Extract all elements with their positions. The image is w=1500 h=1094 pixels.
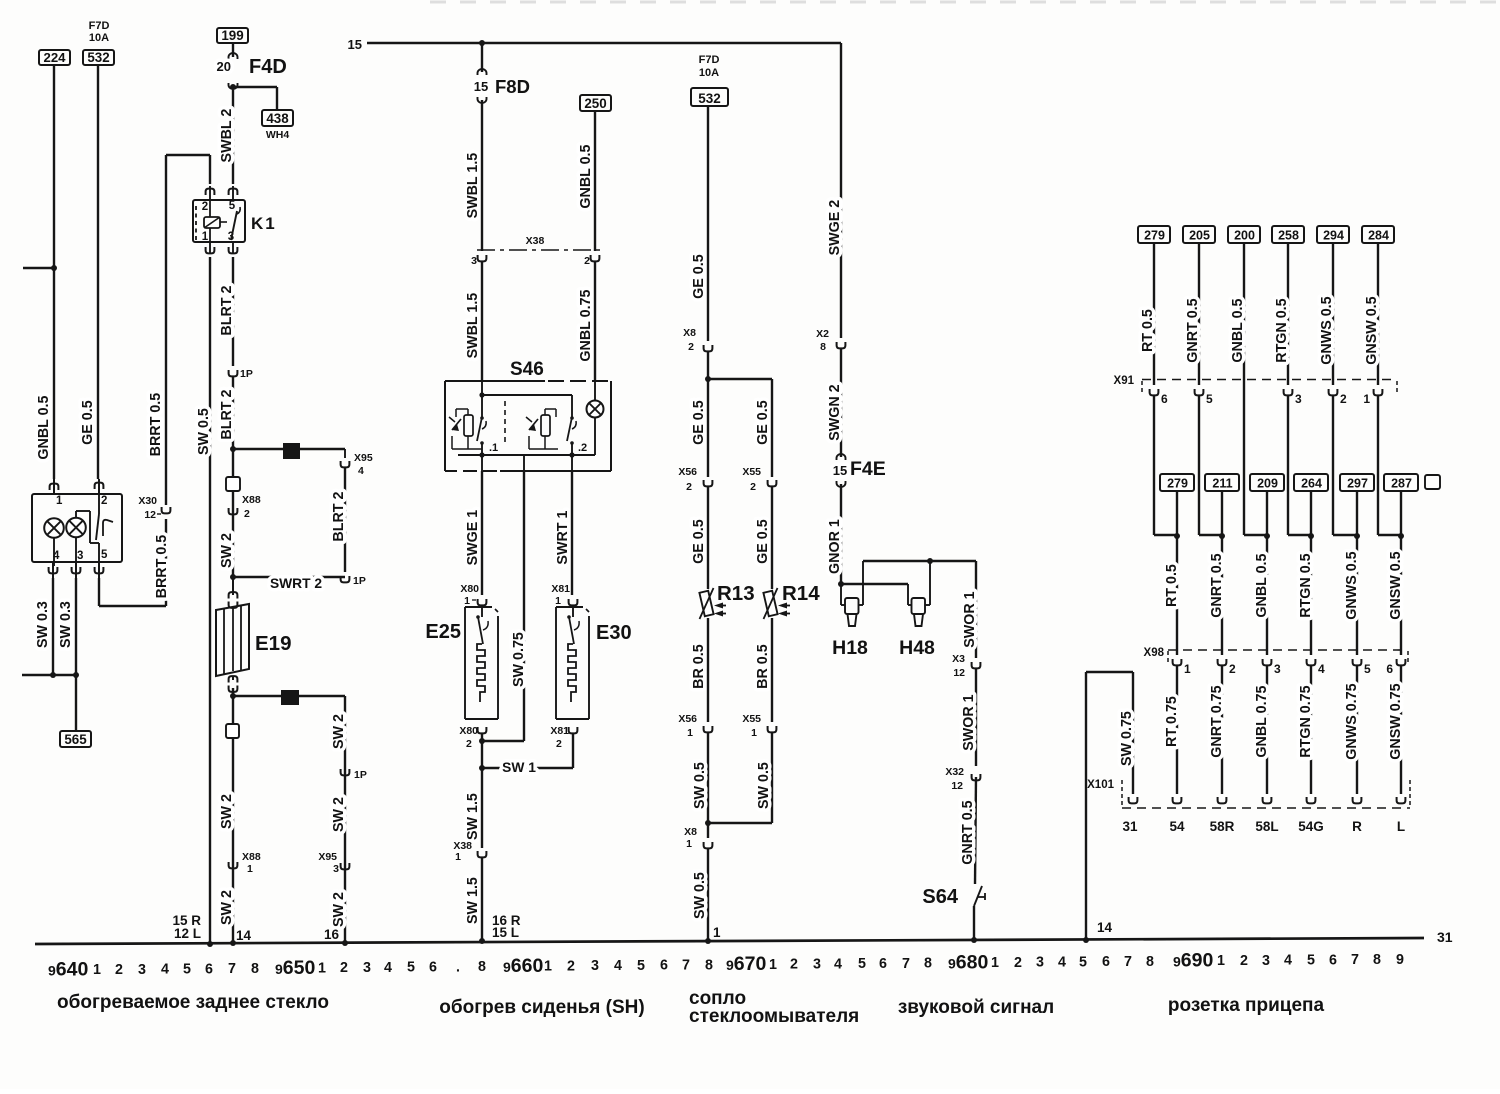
wire SWRT 2 from junction to 1P (233, 576, 345, 578)
svg-text:12: 12 (951, 780, 963, 792)
svg-text:X32: X32 (945, 766, 964, 778)
svg-text:5: 5 (229, 200, 236, 212)
box lead (1176, 491, 1178, 535)
terminal box 199 (217, 28, 248, 43)
svg-text:31: 31 (1437, 929, 1453, 945)
svg-text:GE 0.5: GE 0.5 (755, 519, 771, 564)
svg-text:8: 8 (1373, 952, 1381, 968)
wire SW 1.5 to rail (481, 858, 483, 941)
svg-text:15: 15 (474, 79, 488, 94)
terminal box 279 (second row) (1160, 474, 1194, 491)
svg-text:5: 5 (1307, 953, 1315, 969)
svg-text:31: 31 (1122, 819, 1138, 834)
wire from X91 column to junction 279 (1153, 396, 1155, 535)
svg-text:2: 2 (101, 495, 107, 507)
open connector square (226, 724, 239, 738)
svg-text:1: 1 (56, 495, 63, 507)
svg-text:1: 1 (687, 727, 693, 739)
connector X38 pin 1 (478, 851, 487, 857)
svg-text:BLRT 2: BLRT 2 (219, 286, 235, 336)
wire SW 0.75 from rail 31 to X101 (1085, 672, 1087, 940)
svg-text:S64: S64 (922, 886, 958, 908)
svg-text:GE 0.5: GE 0.5 (691, 400, 707, 445)
svg-text:532: 532 (87, 50, 109, 65)
svg-text:обогрев сиденья (SH): обогрев сиденья (SH) (439, 997, 644, 1018)
connector X95 pin 4 (341, 461, 350, 467)
svg-text:R13: R13 (717, 582, 755, 605)
horn bus lower wire (841, 583, 908, 585)
connector X56 pin 1 (704, 726, 713, 732)
svg-text:GNRT 0.5: GNRT 0.5 (1209, 553, 1225, 617)
svg-text:3: 3 (138, 962, 146, 978)
svg-text:1: 1 (686, 838, 692, 850)
terminal box 258 (1272, 226, 1304, 243)
svg-text:297: 297 (1347, 477, 1368, 491)
svg-text:2: 2 (688, 341, 694, 353)
junction (51, 265, 57, 271)
svg-text:3: 3 (363, 960, 371, 976)
svg-text:8: 8 (924, 956, 932, 972)
junction branch to R14 (707, 352, 709, 379)
fuse F8D terminal 15 (481, 43, 483, 72)
svg-text:2: 2 (1014, 955, 1022, 971)
svg-text:SWGE 1: SWGE 1 (465, 510, 481, 566)
junction (1398, 533, 1404, 539)
svg-text:4: 4 (358, 465, 364, 477)
svg-text:GE 0.5: GE 0.5 (691, 519, 707, 564)
relay K1 (193, 186, 277, 253)
svg-text:5: 5 (101, 549, 108, 561)
svg-text:R: R (1352, 819, 1362, 834)
terminal box 224 (39, 50, 70, 65)
svg-text:BLRT 2: BLRT 2 (219, 390, 235, 440)
junction on rail (230, 940, 236, 946)
svg-text:X30: X30 (138, 495, 157, 507)
svg-text:3: 3 (333, 863, 339, 875)
wire BLRT 2 from X95-4 to 1P (344, 468, 346, 572)
svg-text:5: 5 (1206, 392, 1213, 406)
junction below E19 (230, 693, 236, 699)
wire GE 0.5 to X56-2 (707, 379, 709, 477)
svg-text:F4E: F4E (850, 458, 886, 480)
wire GNWS 0.75 from X98 to X101 (1356, 666, 1358, 794)
connector X101 pin L (1397, 797, 1406, 803)
svg-text:16: 16 (324, 927, 340, 942)
svg-text:14: 14 (1097, 920, 1113, 935)
connector X80 pin 1 (478, 599, 487, 605)
svg-text:звуковой сигнал: звуковой сигнал (898, 997, 1054, 1018)
horn bus upper wire (863, 560, 976, 562)
svg-text:SW 0.3: SW 0.3 (35, 601, 51, 648)
svg-text:GE 0.5: GE 0.5 (80, 400, 96, 445)
wire SWOR 1 from X3 to X32 (975, 669, 977, 766)
svg-text:F4D: F4D (249, 56, 287, 78)
svg-text:2: 2 (340, 960, 348, 976)
svg-text:GNBL 0.75: GNBL 0.75 (578, 290, 594, 362)
wire GE 0.5 to R13 (707, 487, 709, 589)
svg-text:15 L: 15 L (492, 925, 519, 940)
wire RTGN 0.75 from X98 to X101 (1310, 666, 1312, 794)
svg-text:GNBL 0.5: GNBL 0.5 (36, 395, 52, 459)
wire from 199 to fuse F4D (232, 43, 234, 57)
svg-text:RT 0.5: RT 0.5 (1164, 564, 1180, 607)
svg-text:58R: 58R (1210, 819, 1235, 834)
connector X98 pin 6 (1397, 659, 1406, 665)
svg-text:9650: 9650 (275, 957, 315, 979)
wire GNBL 0.5 to X98 pin 3 (1266, 535, 1268, 655)
svg-text:1: 1 (991, 955, 999, 971)
svg-text:RT 0.5: RT 0.5 (1140, 309, 1156, 352)
junction on rail (971, 937, 977, 943)
terminal box 532 (washer) (691, 88, 728, 106)
svg-text:SWBL 1.5: SWBL 1.5 (465, 153, 481, 219)
junction (1219, 533, 1225, 539)
svg-text:8: 8 (1146, 954, 1154, 970)
connector X2 pin 8 (837, 342, 846, 348)
connector X8 pin 1 (707, 823, 709, 838)
svg-text:E25: E25 (425, 621, 461, 643)
branch wire with splice to X95-3 column (233, 695, 345, 697)
connector X101 pin 54G (1307, 797, 1316, 803)
svg-text:3: 3 (591, 958, 599, 974)
svg-text:F7D: F7D (699, 54, 720, 66)
svg-text:1: 1 (464, 595, 470, 607)
junction on rail (479, 938, 485, 944)
wire from X91 column to junction 264 (1287, 396, 1289, 535)
svg-text:SW 1.5: SW 1.5 (465, 793, 481, 840)
terminal box 438 (262, 110, 293, 126)
terminal box 264 (second row) (1294, 474, 1328, 491)
svg-text:BRRT 0.5: BRRT 0.5 (148, 393, 164, 457)
wire SWRT 1 from S46.2 to X81-1 (571, 471, 573, 595)
open connector square on SW2 wire (226, 477, 240, 491)
junction on rail (207, 941, 213, 947)
svg-text:X81: X81 (551, 583, 570, 595)
svg-text:GNWS 0.75: GNWS 0.75 (1344, 683, 1360, 759)
svg-text:287: 287 (1391, 477, 1412, 491)
svg-text:1: 1 (1217, 953, 1225, 969)
svg-text:2: 2 (584, 255, 590, 267)
svg-text:8: 8 (251, 961, 259, 977)
washer nozzle heater R14 (763, 582, 820, 619)
wire GNBL 0.5 from 224 to lamp M pin1 (53, 65, 55, 479)
svg-text:SW 2: SW 2 (331, 714, 347, 749)
svg-text:розетка прицепа: розетка прицепа (1168, 995, 1325, 1016)
junction (230, 574, 236, 580)
heated rear window element E19 (216, 578, 291, 692)
svg-text:6: 6 (660, 958, 668, 974)
svg-text:1: 1 (555, 595, 561, 607)
wire from S64 to rail (973, 906, 975, 940)
svg-text:10A: 10A (699, 67, 719, 79)
wire BRRT 0.5 from X30 to relay K1 pin 2 (165, 155, 167, 505)
svg-text:2: 2 (1340, 392, 1347, 406)
svg-text:9640: 9640 (48, 959, 88, 981)
svg-text:X3: X3 (952, 653, 965, 665)
svg-text:7: 7 (1351, 952, 1359, 968)
svg-text:GNBL 0.75: GNBL 0.75 (1254, 686, 1270, 758)
svg-text:SW 0.5: SW 0.5 (196, 408, 212, 455)
svg-text:4: 4 (1284, 953, 1292, 969)
svg-text:200: 200 (1234, 229, 1255, 243)
svg-text:2: 2 (202, 201, 208, 213)
wire BRRT 0.5 from M pin5 to connector X30 (98, 578, 100, 606)
svg-text:10A: 10A (89, 32, 109, 44)
svg-text:4: 4 (161, 962, 169, 978)
svg-text:GNRT 0.75: GNRT 0.75 (1209, 685, 1225, 757)
svg-text:258: 258 (1278, 229, 1299, 243)
node 31 ground rail (35, 938, 1424, 944)
svg-text:9680: 9680 (948, 951, 988, 973)
svg-text:3: 3 (1036, 955, 1044, 971)
wire GNSW 0.5 to X98 pin 6 (1400, 535, 1402, 655)
connector X80 pin 2 (478, 727, 487, 733)
svg-text:9690: 9690 (1173, 950, 1213, 972)
svg-text:1P: 1P (240, 368, 253, 380)
svg-text:1: 1 (544, 959, 552, 975)
connector X91 pin 5 (1195, 389, 1204, 395)
svg-text:E19: E19 (255, 632, 291, 655)
svg-text:SW 1: SW 1 (502, 760, 536, 775)
svg-text:6: 6 (1329, 952, 1337, 968)
svg-text:1P: 1P (353, 575, 366, 587)
horn switch S64 (922, 886, 985, 908)
svg-text:1: 1 (713, 925, 721, 940)
svg-text:GNBL 0.5: GNBL 0.5 (1254, 553, 1270, 617)
wire RTGN 0.5 to X98 pin 4 (1310, 535, 1312, 655)
connector X38 pins 3 and 2 (471, 235, 601, 267)
svg-text:SWBL 2: SWBL 2 (219, 109, 235, 163)
svg-text:стеклоомывателя: стеклоомывателя (689, 1006, 859, 1027)
svg-text:GNWS 0.5: GNWS 0.5 (1344, 551, 1360, 619)
wire BLRT 2 from 1P to junction (232, 377, 234, 578)
wire RT 0.75 from X98 to X101 (1176, 666, 1178, 794)
svg-text:X101: X101 (1087, 779, 1114, 791)
svg-text:SW 0.5: SW 0.5 (692, 872, 708, 919)
svg-text:X2: X2 (816, 328, 829, 340)
svg-text:2: 2 (790, 957, 798, 973)
seat heater switch S46 (445, 359, 611, 471)
wire below E19 (232, 688, 234, 944)
svg-text:.2: .2 (578, 442, 587, 454)
connector 1P (229, 370, 238, 376)
wire GNOR 1 from F4E to horns (840, 484, 842, 584)
connector X32 pin 12 (972, 774, 981, 780)
svg-text:2: 2 (244, 508, 250, 520)
connector X81 pin 1 (569, 599, 578, 605)
svg-text:5: 5 (858, 956, 866, 972)
wire SW 0.3 from M pin4 (52, 578, 54, 675)
junction on rail (1083, 937, 1089, 943)
fuse F4D terminal 20 (229, 53, 238, 59)
ground terminal box 565 (60, 731, 91, 747)
washer nozzle heater R13 (699, 582, 754, 619)
svg-text:GNOR 1: GNOR 1 (827, 519, 843, 574)
svg-text:X88: X88 (242, 494, 261, 506)
svg-text:2: 2 (115, 962, 123, 978)
svg-text:3: 3 (813, 956, 821, 972)
svg-text:6: 6 (1161, 392, 1168, 406)
svg-text:BLRT 2: BLRT 2 (331, 492, 347, 542)
connector X88 pin 1 (229, 862, 238, 868)
terminal box 250 (580, 95, 611, 111)
svg-text:X55: X55 (742, 466, 761, 478)
svg-text:.: . (456, 959, 460, 975)
svg-text:X80: X80 (459, 725, 478, 737)
junction (1308, 533, 1314, 539)
box lead (1400, 491, 1402, 535)
svg-text:565: 565 (64, 732, 87, 747)
svg-text:SWOR 1: SWOR 1 (962, 591, 978, 647)
junction with SW 0.75 return (481, 733, 483, 768)
connector X95 pin 3 (341, 863, 350, 869)
svg-text:5: 5 (637, 958, 645, 974)
svg-text:6: 6 (429, 960, 437, 976)
horn H18 (832, 561, 868, 659)
svg-text:SW 0.5: SW 0.5 (692, 762, 708, 809)
svg-text:1: 1 (202, 231, 209, 243)
box lead (1310, 491, 1312, 535)
svg-text:2: 2 (750, 481, 756, 493)
svg-text:X8: X8 (684, 826, 697, 838)
svg-text:GNRT 0.5: GNRT 0.5 (960, 800, 976, 864)
wire GNRT 0.75 from X98 to X101 (1221, 666, 1223, 794)
svg-text:SW 0.3: SW 0.3 (58, 601, 74, 648)
svg-text:9660: 9660 (503, 955, 543, 977)
svg-text:SW 2: SW 2 (219, 794, 235, 829)
svg-text:1: 1 (247, 863, 253, 875)
junction to 438 (230, 84, 236, 90)
connector X98 (1144, 647, 1408, 663)
svg-text:RT 0.75: RT 0.75 (1164, 696, 1180, 747)
connector X8 pin 2 (704, 345, 713, 351)
connector X98 pin 3 (1263, 659, 1272, 665)
svg-text:15: 15 (833, 463, 847, 478)
interior lamp unit M with switch (32, 479, 122, 578)
connector X101 pin 54 (1173, 797, 1182, 803)
svg-text:обогреваемое заднее стекло: обогреваемое заднее стекло (57, 992, 329, 1013)
terminal box 279 (1138, 226, 1170, 243)
svg-text:7: 7 (228, 961, 236, 977)
svg-text:SWGE 2: SWGE 2 (827, 200, 843, 256)
svg-text:BRRT 0.5: BRRT 0.5 (154, 535, 170, 599)
svg-text:RTGN 0.5: RTGN 0.5 (1298, 553, 1314, 617)
wire to terminal 438 (233, 86, 277, 88)
svg-text:14: 14 (236, 928, 252, 943)
svg-text:X80: X80 (460, 583, 479, 595)
svg-text:54: 54 (1169, 819, 1185, 834)
wire BLRT 2 from K1 pin3 to connector 1P (232, 257, 234, 366)
svg-text:F8D: F8D (495, 76, 530, 97)
branch wire with splice to X95 pin4 (233, 448, 345, 450)
svg-text:SWOR 1: SWOR 1 (961, 694, 977, 750)
wire SWBL 2 from F4D to relay K1 pin 5 (232, 90, 234, 184)
terminal box 205 (1183, 226, 1215, 243)
svg-text:5: 5 (407, 960, 415, 976)
svg-text:3: 3 (471, 255, 477, 267)
svg-text:L: L (1397, 819, 1405, 834)
svg-text:GE 0.5: GE 0.5 (755, 400, 771, 445)
svg-text:3: 3 (1274, 662, 1281, 676)
wire SW 0.3 from M pin3 (75, 578, 77, 675)
junction (1264, 533, 1270, 539)
svg-text:7: 7 (682, 958, 690, 974)
svg-text:6: 6 (205, 961, 213, 977)
wire SWBL 1.5 from X38-3 to S46 (481, 262, 483, 381)
svg-text:X81: X81 (550, 725, 569, 737)
svg-text:X98: X98 (1144, 647, 1165, 659)
terminal box 209 (second row) (1250, 474, 1284, 491)
wire to ground point 565 (75, 675, 77, 731)
wire SW 0.5 from K1 pin1 to rail 31 (209, 257, 211, 944)
terminal box 287 (second row) (1384, 474, 1418, 491)
svg-text:6: 6 (879, 956, 887, 972)
svg-text:X91: X91 (1114, 375, 1135, 387)
svg-text:279: 279 (1144, 229, 1165, 243)
connector X91 pin 6 (1150, 389, 1159, 395)
svg-text:250: 250 (584, 96, 606, 111)
seat heater element E25 (425, 605, 498, 719)
wire SW 0.5 to rail (707, 849, 709, 941)
scan artifact strip at top edge (430, 1, 1500, 4)
svg-text:X55: X55 (742, 713, 761, 725)
svg-text:279: 279 (1167, 477, 1188, 491)
wire SW 0.5 below X56-1 (707, 733, 709, 823)
connector X88 pin 2 (229, 508, 238, 514)
svg-text:GNBL 0.5: GNBL 0.5 (578, 144, 594, 208)
svg-text:GE 0.5: GE 0.5 (691, 254, 707, 299)
connector X91 pin 3 (1284, 389, 1293, 395)
wire RT 0.5 from 279 to X91 (1153, 243, 1155, 385)
svg-text:X8: X8 (683, 327, 696, 339)
svg-text:RTGN 0.5: RTGN 0.5 (1274, 298, 1290, 362)
svg-text:3: 3 (1295, 392, 1302, 406)
svg-text:8: 8 (705, 957, 713, 973)
svg-text:4: 4 (614, 958, 622, 974)
wire from X91 column to junction 209 (1244, 534, 1267, 536)
junction to X95-4 branch (230, 446, 236, 452)
junction of F8D on 15-rail (479, 40, 485, 46)
ground junction line (22, 674, 76, 676)
svg-text:205: 205 (1189, 229, 1210, 243)
junction (1174, 533, 1180, 539)
wire SWOR 1 from horns to X3-12 (975, 561, 977, 658)
svg-text:5: 5 (1079, 954, 1087, 970)
svg-text:SWRT 2: SWRT 2 (270, 576, 322, 591)
svg-text:6: 6 (1386, 662, 1393, 676)
wire GNWS 0.5 from 294 to X91 (1332, 243, 1334, 385)
svg-text:H48: H48 (899, 637, 935, 659)
svg-text:GNRT 0.5: GNRT 0.5 (1185, 298, 1201, 362)
svg-text:H18: H18 (832, 637, 868, 659)
wire from X91 column to junction 297 (1332, 396, 1334, 535)
terminal box 211 (second row) (1205, 474, 1239, 491)
svg-text:SW 2: SW 2 (331, 892, 347, 927)
svg-text:6: 6 (1102, 954, 1110, 970)
svg-text:12: 12 (144, 509, 156, 521)
junction at horn feed (838, 581, 844, 587)
svg-text:WH4: WH4 (266, 129, 289, 141)
wire SW 1.5 to X38-1 (481, 768, 483, 848)
wire GNSW 0.5 from 284 to X91 (1377, 243, 1379, 385)
connector X101 pin 58R (1218, 797, 1227, 803)
connector X91 pin 1 (1374, 389, 1383, 395)
svg-text:RTGN 0.75: RTGN 0.75 (1298, 685, 1314, 757)
svg-text:SWRT 1: SWRT 1 (555, 511, 571, 565)
wire SWGE 1 from S46.1 to X80-1 (481, 471, 483, 595)
wire SW 1 from E30 to junction (572, 733, 574, 768)
node 15 supply line (367, 42, 841, 44)
